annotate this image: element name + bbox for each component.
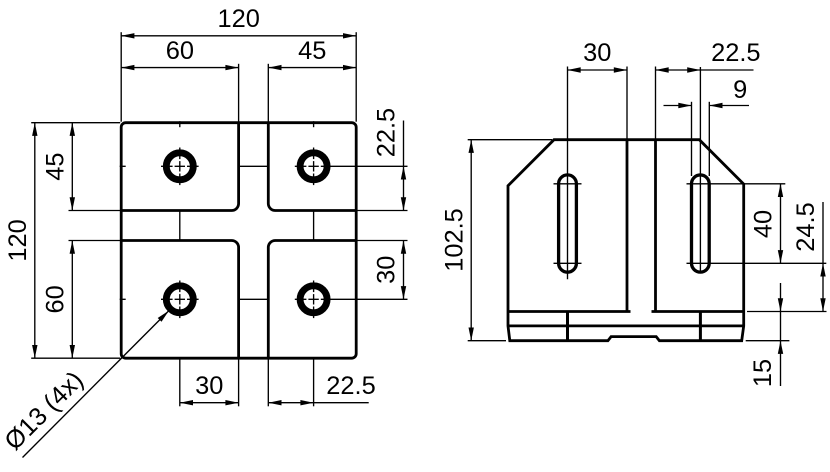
side view: flange line [508,324,744,327]
extension line below plate at hole centerline (right) [313,359,315,406]
dimension 45 (top right pad width) [268,37,356,71]
svg-text:24.5: 24.5 [792,202,820,251]
front view: centerline tick on top edge (left holes) [179,121,181,127]
svg-text:30: 30 [195,372,223,400]
extension line at groove top edge (left) [69,210,121,212]
extension line at plate bottom edge (left) [31,357,120,359]
side view: right slot (9 wide, obround) [692,175,710,272]
dimension 9 (slot width) [664,76,750,108]
dimension 102.5 (side view height) [440,140,474,341]
front view: centerline across vertical groove (bottom holes) [239,298,269,300]
leader label Ø13 (4x) [0,366,89,456]
hole H3 bottom-left (Ø13) with centerlines [161,281,199,319]
svg-text:120: 120 [218,5,260,33]
extension line at groove bottom edge (right) [357,240,407,242]
svg-text:45: 45 [298,37,326,65]
side view: left slot centerline (extends to 30 dim) [567,67,569,280]
extension line at right slot left edge (9 dim) [691,102,693,176]
front view: centerline tick on top edge (right holes) [313,121,315,127]
dimension 30 (side view top) [568,39,628,72]
side view: outline with chamfers and bottom notch [508,140,744,341]
dimension 60 (left bottom pad height) [42,241,76,359]
extension line at side view top edge (left) [468,139,552,141]
extension line at groove left edge (top) [238,64,240,122]
extension line at plate right edge (top) [355,32,357,122]
dimension 120 (top overall width) [121,5,356,39]
extension line at groove bottom edge (left) [69,240,121,242]
dimension 60 (top left pad width) [121,37,238,71]
dimension 30 (bottom, hole to groove) [180,372,239,406]
hole H1 top-left (Ø13) with centerlines [161,148,199,186]
front view: plate outline (120 x 120, rounded corners) [121,123,356,359]
extension line at bottom edge (right) [746,340,790,342]
extension line at channel left edge (top) [626,67,628,139]
svg-text:60: 60 [42,285,70,313]
front view: centerline tick on left edge (bottom holes) [120,298,126,300]
leader line to hole H3 [23,311,169,458]
dimension 30 (right, groove to hole) [373,241,407,300]
dimension 45 (left top pad height) [42,123,76,211]
side view: channel left edge [626,140,629,312]
side view: hole bar right (Ø13 through bottom flange) [699,312,702,341]
extension line at plate left edge (top) [120,32,122,122]
svg-text:15: 15 [749,359,777,387]
dimension 40 (slot length) [750,184,784,263]
svg-text:9: 9 [733,76,747,104]
svg-text:102.5: 102.5 [440,208,468,272]
front view: centerline across horizontal groove (left holes) [179,211,181,241]
extension line at plate top edge (left) [31,122,120,124]
extension line at side view bottom edge (left) [468,340,506,342]
side view: left slot cross line bottom [554,262,582,264]
extension line at right slot bottom arc center [687,262,827,264]
side view: groove floor line right segment [652,310,744,313]
side view: right slot centerline / chamfer extension [699,67,701,272]
side view: groove floor line left segment [508,310,631,313]
side view: left slot (9 wide, obround) [559,175,577,272]
extension line at right slot top arc center [687,183,786,185]
extension line below plate at hole centerline (left) [179,359,181,406]
front view: bottom-left pad inner edge (cross groove) [121,241,238,359]
svg-text:45: 45 [42,152,70,180]
extension line below plate at groove right edge [267,359,269,406]
extension line at groove floor (right) [747,311,827,313]
svg-text:22.5: 22.5 [326,372,375,400]
svg-text:120: 120 [4,219,32,261]
svg-text:22.5: 22.5 [711,39,760,67]
front view: top-right pad inner edge (cross groove) [268,123,356,211]
svg-text:22.5: 22.5 [373,108,401,157]
svg-text:60: 60 [166,37,194,65]
svg-text:30: 30 [373,256,401,284]
extension line at channel right edge (top) [655,67,657,139]
hole H2 top-right (Ø13) with centerlines [295,148,408,186]
front view: centerline across horizontal groove (right holes) [313,211,315,241]
svg-text:40: 40 [750,210,778,238]
front view: centerline tick on left edge (top holes) [120,165,126,167]
front view: top-left pad inner edge (cross groove) [121,123,238,211]
front view: centerline across vertical groove (top holes) [239,165,269,167]
dimension 22.5 (side view top) [656,39,761,72]
hole H4 bottom-right (Ø13) with centerlines [295,281,408,319]
dimension 15 (bottom flange) [749,283,783,387]
dimension 22.5 (right, hole to groove) [373,108,407,211]
extension line below plate at groove left edge [238,359,240,406]
extension line at groove top edge (right) [357,210,407,212]
dimension 24.5 (slot bottom to floor) [792,202,826,312]
extension line at right slot right edge (9 dim) [708,102,710,176]
dimension 120 (left overall height) [4,123,38,359]
front view: bottom-right pad inner edge (cross groove) [268,241,356,359]
extension line at groove right edge (top) [267,64,269,122]
dimension 22.5 (bottom, groove to hole) [268,372,375,406]
side view: left slot cross line top [554,183,582,185]
side view: channel right edge [654,140,657,312]
svg-text:30: 30 [583,39,611,67]
side view: hole bar left (Ø13 through bottom flange) [566,312,569,341]
